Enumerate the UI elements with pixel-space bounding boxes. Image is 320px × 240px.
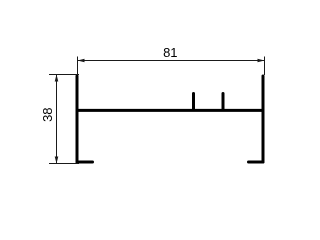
- extension line right (81): [264, 57, 266, 76]
- arrow left (81): [78, 59, 85, 63]
- left bottom foot: [77, 161, 93, 164]
- arrow down (38): [55, 157, 59, 164]
- svg-text:81: 81: [163, 45, 177, 60]
- svg-text:38: 38: [40, 107, 55, 121]
- left wall: [76, 76, 79, 162]
- dimension 38: [49, 75, 79, 164]
- arrow right (81): [258, 59, 265, 63]
- rib 2: [222, 94, 225, 111]
- extension line top (38): [49, 74, 79, 76]
- right bottom foot: [249, 161, 264, 164]
- extension line bottom (38): [49, 163, 79, 165]
- web: [77, 109, 263, 112]
- dim line 38: [56, 75, 58, 164]
- arrow up (38): [55, 75, 59, 82]
- profile cross-section outline: [77, 76, 263, 162]
- dimension 81: [78, 57, 265, 76]
- dim line 81: [78, 60, 265, 62]
- right wall: [262, 76, 265, 162]
- rib 1: [192, 94, 195, 111]
- extension line left (81): [77, 57, 79, 76]
